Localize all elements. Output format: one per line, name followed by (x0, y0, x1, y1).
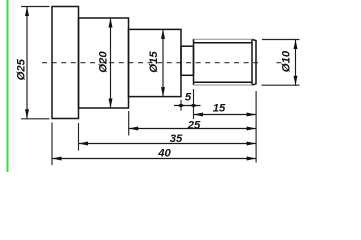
svg-text:35: 35 (170, 133, 183, 145)
svg-text:40: 40 (157, 148, 171, 160)
svg-text:Ø10: Ø10 (280, 50, 292, 72)
svg-text:15: 15 (213, 103, 226, 115)
svg-text:25: 25 (187, 119, 201, 131)
svg-text:Ø20: Ø20 (97, 51, 109, 73)
svg-text:5: 5 (185, 92, 192, 104)
svg-text:Ø25: Ø25 (15, 58, 27, 80)
svg-text:Ø15: Ø15 (148, 51, 160, 73)
